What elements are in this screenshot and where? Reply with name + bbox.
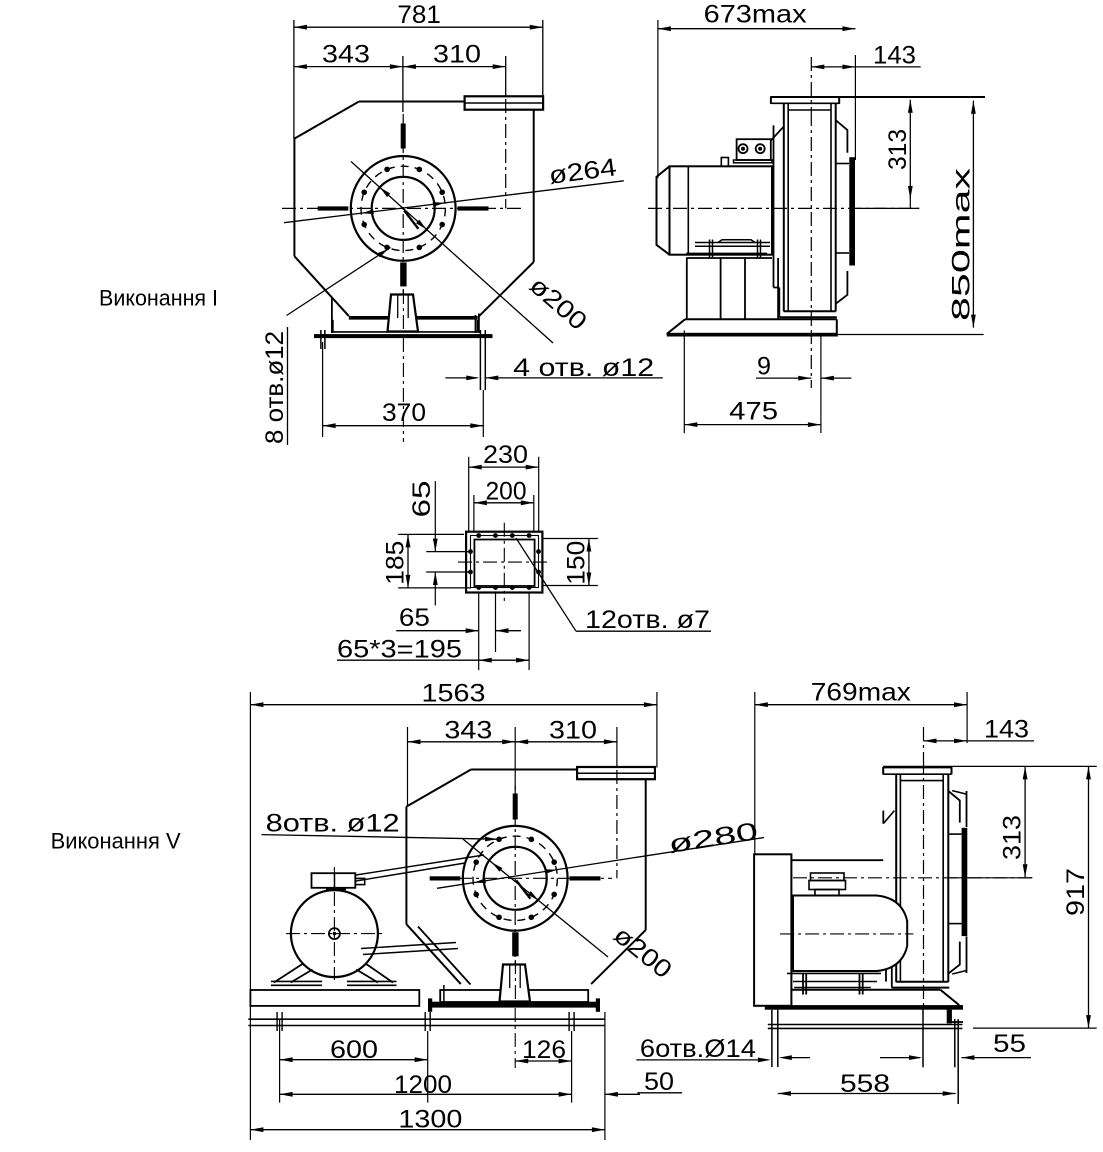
svg-text:310: 310: [549, 717, 597, 745]
dimension 310 view4: [616, 727, 618, 768]
dimension 769max view5: [754, 692, 756, 854]
svg-text:4 отв. ø12: 4 отв. ø12: [513, 354, 654, 382]
leader d264 view1: [284, 181, 624, 223]
svg-text:1563: 1563: [422, 680, 486, 708]
svg-text:55: 55: [993, 1030, 1026, 1058]
dimension 475 view2: [683, 330, 685, 433]
dimension 143 view2: [810, 57, 812, 112]
dimension 558 view5: [778, 1093, 956, 1095]
base right foot view5: [947, 1010, 952, 1024]
dimension 4 holes d12 view1: [445, 377, 477, 379]
dimension 126 view4: [514, 1008, 516, 1068]
leader d280 view4: [437, 838, 764, 889]
scroll front plate view2: [773, 125, 775, 287]
svg-text:313: 313: [999, 815, 1027, 860]
dimension 143 view5: [923, 727, 925, 760]
dimension 781 view1: [293, 20, 295, 139]
motor terminal box view4: [312, 873, 356, 888]
dimension 850max view2: [972, 101, 974, 328]
anchor hole left view1: [320, 330, 322, 349]
bolt circle d264 view1: [361, 166, 445, 250]
center line vertical view4: [514, 786, 516, 980]
leader 8 holes d12 view4: [262, 835, 498, 840]
flange bottom ext lines: [478, 593, 480, 671]
left bracket view1: [331, 298, 333, 334]
flange inner square: [474, 540, 534, 587]
flange bolt holes 12x d7: [476, 533, 481, 538]
foundation rails view4: [248, 1018, 605, 1020]
svg-text:12отв. ø7: 12отв. ø7: [585, 606, 710, 634]
svg-text:50: 50: [644, 1068, 674, 1096]
stud bar top view4: [513, 794, 518, 820]
center line horizontal view4: [433, 877, 612, 879]
svg-text:1200: 1200: [394, 1071, 452, 1099]
dimension 310 view1: [505, 56, 507, 96]
flange bolt line square: [471, 536, 539, 588]
center line horizontal view1: [282, 207, 525, 209]
bolt holes 8x view4: [551, 859, 557, 865]
impeller centerline view5: [923, 760, 925, 1008]
foundation line view1: [314, 334, 493, 338]
foundation rails view5: [768, 1024, 963, 1026]
discharge flange view1: [465, 96, 543, 109]
fan base thick band view4: [430, 1002, 599, 1008]
flange outer square: [466, 532, 542, 593]
inlet collar circle view1: [351, 156, 456, 261]
discharge duct view1: [533, 110, 535, 262]
center line view2: [648, 207, 919, 209]
svg-text:310: 310: [433, 41, 481, 69]
svg-text:370: 370: [382, 399, 426, 427]
fan housing octagon view1: [359, 101, 465, 103]
inlet flange bar view5: [962, 828, 968, 936]
motor pedestal view2: [686, 258, 688, 319]
base plate view2: [685, 318, 837, 320]
fan housing octagon view4: [471, 769, 577, 771]
dimension 6 holes d14 view5: [636, 1059, 767, 1061]
svg-text:65: 65: [408, 481, 436, 518]
inlet cone view2: [836, 120, 847, 152]
fan axis centerline view5: [793, 877, 1032, 879]
svg-text:65*3=195: 65*3=195: [337, 636, 462, 664]
stud bar top view1: [401, 124, 406, 149]
dimension 313 view2: [849, 207, 919, 209]
stud bar right view1: [458, 206, 489, 210]
motor body view5: [793, 896, 907, 972]
dimension 343 view4: [407, 727, 409, 807]
svg-text:673max: 673max: [704, 1, 808, 29]
svg-text:Виконання V: Виконання V: [51, 829, 181, 854]
dimension 150 flange: [588, 539, 590, 586]
svg-text:850max: 850max: [948, 167, 976, 321]
dimension 1300 view4: [250, 1129, 605, 1131]
svg-text:313: 313: [884, 129, 912, 170]
belt guard panel view5: [754, 854, 791, 1006]
support gusset view4: [418, 927, 471, 985]
motor slide rails view2: [695, 242, 770, 244]
support pedestal view4: [500, 965, 531, 1002]
support pedestal view1: [388, 295, 419, 332]
svg-text:9: 9: [757, 352, 771, 380]
motor base plate view4: [250, 990, 419, 1006]
inlet ring outer view5: [966, 791, 968, 827]
scroll casing view5: [895, 775, 897, 983]
svg-text:917: 917: [1062, 868, 1090, 916]
svg-text:600: 600: [330, 1036, 378, 1064]
stud bar bottom view1: [400, 262, 406, 286]
svg-text:6отв.Ø14: 6отв.Ø14: [640, 1035, 756, 1063]
stud bar bottom view4: [512, 932, 518, 956]
inlet circle d200 view4: [484, 847, 547, 910]
dimension 230 flange: [468, 457, 470, 532]
scroll flange top view5: [883, 766, 951, 768]
svg-text:150: 150: [563, 541, 591, 585]
center ext below base view1: [402, 338, 404, 442]
dimension 200 flange: [473, 495, 475, 532]
terminal nub view2: [721, 158, 728, 167]
impeller centerline view2: [810, 112, 812, 330]
anchor bolts motor view5: [802, 973, 804, 994]
stud bar left view4: [430, 876, 461, 880]
svg-text:558: 558: [840, 1070, 890, 1098]
inlet circle d200 view1: [372, 177, 435, 240]
dimension 1563 view4: [249, 692, 251, 1140]
svg-text:769max: 769max: [811, 679, 912, 707]
svg-text:65: 65: [399, 604, 430, 632]
dimension 343 view1: [294, 66, 403, 68]
svg-text:200: 200: [486, 477, 527, 505]
belt drive lines view4: [356, 855, 484, 875]
scroll casing view2: [783, 104, 785, 312]
flange left ref lines: [398, 533, 464, 535]
svg-text:343: 343: [444, 717, 492, 745]
motor feet view5: [787, 972, 881, 974]
anchor hole right view1: [479, 330, 481, 390]
center line vertical view1: [402, 114, 404, 310]
motor terminal box view5: [811, 873, 845, 881]
dimension 185 flange: [407, 534, 409, 588]
inlet collar circle view4: [463, 826, 568, 931]
base plate view5: [791, 989, 940, 991]
leader d200 view1: [351, 162, 553, 344]
leader 12 holes d7: [516, 538, 576, 631]
motor terminal nub view4: [355, 878, 364, 884]
fan base plate view4: [440, 990, 588, 1002]
svg-text:185: 185: [382, 541, 410, 585]
flange centerlines: [503, 523, 505, 601]
anchor hole left view5: [771, 1010, 773, 1067]
svg-text:8 отв.ø12: 8 отв.ø12: [261, 331, 289, 444]
svg-text:230: 230: [483, 441, 528, 469]
anchor hole right view5: [954, 1019, 956, 1067]
dimension 50 view4: [604, 1012, 606, 1140]
base plate view1: [349, 316, 478, 320]
motor leg left view4: [274, 964, 303, 983]
dimension 9 view2: [810, 330, 812, 388]
stud bar left view1: [318, 206, 349, 210]
svg-text:8отв. ø12: 8отв. ø12: [266, 810, 400, 838]
inlet flange bar view2: [849, 157, 855, 265]
dimension 55 view5: [880, 1057, 920, 1059]
svg-text:126: 126: [522, 1036, 566, 1064]
inlet cone view5: [948, 791, 959, 823]
svg-text:781: 781: [397, 1, 441, 29]
motor centerlines view4: [333, 867, 335, 980]
bolt holes 8x view1: [439, 189, 445, 195]
scroll flange top view2: [771, 96, 985, 98]
motor body view2: [670, 166, 773, 254]
svg-text:475: 475: [729, 398, 778, 426]
hub stub line view1: [404, 211, 418, 229]
dimension 600 view4: [279, 1019, 281, 1103]
dimension 313 view5: [950, 877, 1033, 879]
stud bar right view4: [570, 876, 601, 880]
dimension 370 view1: [322, 342, 324, 437]
label 8 holes d12 view1: [287, 327, 289, 445]
dimension 65 bottom flange: [396, 630, 478, 632]
motor cap view2: [657, 166, 670, 254]
dimension 1200 view4: [280, 1093, 572, 1095]
discharge duct view4: [645, 779, 647, 930]
flange right ref lines: [543, 538, 598, 540]
strut view2: [771, 127, 784, 141]
discharge flange view4: [577, 767, 655, 779]
pedestal centerline view1: [402, 290, 404, 331]
svg-text:Виконання I: Виконання I: [99, 286, 218, 311]
centerline below base view5: [922, 1009, 924, 1067]
svg-text:1300: 1300: [398, 1106, 462, 1134]
svg-text:343: 343: [322, 41, 370, 69]
leader d200 view4: [463, 839, 608, 957]
svg-text:143: 143: [984, 716, 1029, 744]
leader 8 holes d12 view1: [287, 248, 391, 316]
dimension 917 view5: [1088, 766, 1090, 1028]
bolt circle d280 view4: [473, 836, 557, 920]
motor centerline view5: [780, 933, 913, 935]
scroll front plate view5: [885, 954, 887, 982]
dimension 65x3=195 flange: [337, 659, 529, 661]
dimension 673max view2: [657, 20, 659, 178]
junction box view2: [737, 139, 771, 160]
right bracket view1: [475, 315, 477, 333]
dimension 65 vertical flange: [434, 481, 436, 551]
anchor holes view4: [276, 1012, 278, 1031]
svg-text:143: 143: [873, 41, 916, 69]
electric motor view4: [291, 890, 378, 977]
motor leg right view4: [366, 964, 393, 983]
hub stub line view4: [516, 880, 530, 898]
